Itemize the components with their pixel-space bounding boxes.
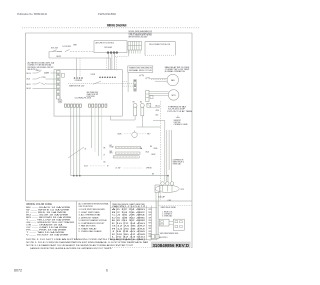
svg-text:CONN-PLUG: CONN-PLUG [75, 98, 93, 100]
svg-text:BK-19: BK-19 [27, 73, 31, 75]
defrost heater bulb TH2 [140, 103, 144, 107]
dotted cut line top [22, 27, 200, 29]
diagram frame left [25, 33, 27, 201]
fuse block F1 [147, 103, 151, 107]
svg-text:MTR: MTR [172, 95, 177, 97]
svg-text:CONN: CONN [91, 74, 95, 76]
svg-text:BU: BU [140, 101, 142, 103]
interlock switch SW1 [53, 50, 57, 52]
svg-text:HTR: HTR [110, 153, 113, 155]
terminal strip TB1 [128, 41, 142, 50]
svg-text:2. LIGHT SWITCHES: 2. LIGHT SWITCHES [79, 212, 101, 214]
svg-text:DEF: DEF [149, 215, 152, 217]
wire h 120 [110, 116, 112, 120]
svg-text:DEF: DEF [149, 217, 152, 219]
svg-text:INTL SW: INTL SW [51, 48, 58, 50]
strip drop wire [128, 50, 130, 56]
svg-text:LT SW: LT SW [41, 77, 46, 79]
svg-text:BEFORE SERVICING UNIT: BEFORE SERVICING UNIT [129, 36, 148, 38]
svg-text:DEF: DEF [149, 228, 152, 230]
connector strip J1 [57, 71, 61, 100]
chart bottom rule with ticks [110, 239, 157, 241]
svg-text:WIRING COLOR CODE: WIRING COLOR CODE [26, 203, 52, 206]
svg-text:E 8 20 32 488: E 8 20 32 488 [112, 220, 145, 222]
svg-text:SEE TIMER SEQ: SEE TIMER SEQ [87, 92, 99, 94]
svg-text:SEE NOTE 5: SEE NOTE 5 [159, 237, 168, 239]
console enclosure outline [54, 70, 122, 117]
door switch SW2 [65, 50, 70, 52]
svg-text:3. A/C THERMOSTAT: 3. A/C THERMOSTAT [79, 214, 102, 217]
dotted cut line bottom [110, 247, 192, 249]
connector block B2 push-to-start [145, 42, 175, 56]
timer wire stub [127, 72, 129, 92]
svg-text:RUN: RUN [149, 225, 152, 227]
evaporator fan motor M1 [167, 74, 178, 85]
relay inset left box [159, 219, 169, 226]
timer contacts [139, 75, 150, 79]
svg-text:BK: BK [152, 173, 154, 175]
svg-text:BK-05: BK-05 [27, 88, 31, 90]
svg-text:F 10 22 34 490: F 10 22 34 490 [112, 223, 145, 225]
svg-text:BK: BK [104, 148, 106, 150]
header pin row left [65, 104, 82, 107]
svg-text:BK/W: BK/W [152, 154, 156, 156]
svg-text:RUN: RUN [149, 209, 152, 211]
dashed wire to timer [115, 55, 128, 57]
svg-text:C 4 16 28 484: C 4 16 28 484 [112, 215, 145, 217]
svg-text:5. DEFROST HEATER SYSTEM: 5. DEFROST HEATER SYSTEM [79, 219, 107, 222]
svg-text:G: G [59, 100, 61, 103]
svg-text:BK/W: BK/W [57, 56, 62, 58]
table divider 1 [76, 201, 78, 240]
harness bundle jog [68, 147, 84, 158]
svg-text:A 0 12 24 480: A 0 12 24 480 [112, 208, 145, 211]
splice bus wire [71, 175, 168, 177]
svg-text:DANGER. RESPECTER LA MISE A LA: DANGER. RESPECTER LA MISE A LA TERRE DE … [30, 247, 113, 250]
svg-text:OR-3: OR-3 [156, 110, 160, 112]
relay inset panel [159, 205, 192, 207]
defrost limit switch [176, 117, 180, 119]
timer box T1 [128, 66, 153, 72]
svg-text:8. START RELAY: 8. START RELAY [79, 227, 98, 230]
svg-text:6: 6 [106, 268, 108, 272]
connector strip pin smudges [57, 74, 59, 95]
wire stub labels [104, 148, 106, 164]
svg-text:6. COMPRESSOR CIRCUIT: 6. COMPRESSOR CIRCUIT [79, 223, 106, 225]
svg-text:9. OVERLOAD GUARD: 9. OVERLOAD GUARD [79, 230, 103, 233]
svg-text:ANTI-FROST CONTROL: ANTI-FROST CONTROL [96, 41, 115, 44]
inset link wires [169, 221, 173, 223]
wire L1 top loop [49, 52, 111, 59]
svg-text:W-6: W-6 [156, 114, 159, 116]
svg-text:CUT-IN 25F: CUT-IN 25F [168, 109, 185, 111]
svg-text:RUN: RUN [149, 212, 152, 214]
svg-text:D 6 18 30 486: D 6 18 30 486 [112, 217, 145, 219]
svg-text:B 2 14 26 482: B 2 14 26 482 [112, 212, 145, 214]
svg-text:RUN: RUN [149, 220, 152, 222]
svg-text:DEFROST: DEFROST [174, 120, 181, 122]
terminal pins of B1 [107, 51, 109, 53]
relay inset right box [173, 219, 184, 230]
svg-text:W-BK: W-BK [154, 148, 158, 150]
safety thermostat TH4 [113, 156, 139, 158]
relay connector K1 [146, 91, 149, 102]
svg-text:4. DEFROST TIMER: 4. DEFROST TIMER [79, 217, 100, 219]
compressor shell [155, 185, 179, 192]
svg-text:DOOR SW: DOOR SW [63, 46, 72, 48]
wire h 127 [136, 126, 160, 128]
diagram frame right [191, 33, 193, 248]
connector dots left group [74, 77, 83, 79]
svg-text:BK-11: BK-11 [27, 84, 31, 86]
wires from B1 pins [108, 54, 110, 70]
svg-text:K 18 30 42 498: K 18 30 42 498 [112, 234, 145, 236]
bottom connector plugs [151, 235, 155, 239]
svg-text:BK: BK [150, 146, 152, 148]
svg-text:Publication No. 5995419142: Publication No. 5995419142 [17, 12, 47, 16]
wire capsule drops [134, 116, 136, 120]
svg-text:BU: BU [104, 162, 106, 164]
small connector rect [62, 73, 65, 77]
aux connector right of K1 [150, 96, 153, 99]
chart grid lines [110, 201, 157, 240]
pin stubs below TB1 [129, 50, 140, 54]
svg-text:7. FAN MOTORS: 7. FAN MOTORS [79, 225, 97, 228]
svg-text:H 14 26 38 494: H 14 26 38 494 [112, 228, 145, 230]
timer sequence chart [109, 201, 111, 240]
cabinet dashed boundary [160, 101, 162, 200]
svg-text:USE WITH 115V 60HZ ONLY: USE WITH 115V 60HZ ONLY [129, 33, 154, 35]
compressor feed wires [167, 130, 172, 182]
svg-text:RUN: RUN [149, 223, 152, 225]
svg-text:NOTE 2: SI LE CORDON D'ALIMENT: NOTE 2: SI LE CORDON D'ALIMENTATION EST … [26, 241, 149, 244]
svg-text:CONN BLK: CONN BLK [75, 80, 83, 82]
svg-text:RUN: RUN [149, 236, 152, 238]
svg-text:RUN: RUN [149, 234, 152, 236]
defrost thermostat bulb TH1 [133, 103, 137, 107]
svg-text:120V 60HZ: 120V 60HZ [104, 47, 112, 49]
svg-text:CPR BK: CPR BK [146, 168, 152, 170]
svg-text:RUN: RUN [149, 231, 152, 233]
diagram frame top [26, 32, 193, 34]
svg-text:NOTE 3: LE FABRICANT OU UN AGE: NOTE 3: LE FABRICANT OU UN AGENT DE SERV… [26, 244, 134, 247]
svg-text:TMR 1-2: TMR 1-2 [36, 70, 42, 72]
harness jog wire [93, 81, 101, 84]
svg-text:W-BK: W-BK [118, 134, 122, 136]
connector stack mid [134, 80, 136, 92]
svg-text:VIEW FROM WIRING SIDE: VIEW FROM WIRING SIDE [160, 233, 179, 235]
svg-text:DEF: DEF [110, 151, 113, 153]
wires from top bus down into console [77, 58, 111, 77]
terminal strip mid rail [128, 45, 142, 47]
svg-text:TIMER MOTOR 120V: TIMER MOTOR 120V [69, 86, 85, 88]
svg-text:L.T. SW: L.T. SW [115, 168, 121, 170]
header pin row right [89, 104, 107, 107]
chart status column [149, 209, 152, 238]
ground G [58, 99, 62, 103]
compressor CPR terminals [161, 182, 165, 186]
wires to bottom connector [158, 193, 160, 235]
splice junction dots [73, 175, 75, 177]
harness wires right group [92, 108, 102, 161]
svg-text:W-14: W-14 [84, 166, 88, 168]
svg-text:W-02: W-02 [27, 79, 31, 81]
anti-frost control box B1 [94, 41, 127, 53]
svg-text:L1 BK: L1 BK [167, 200, 171, 202]
start relay box [155, 185, 160, 193]
svg-text:WIRING DIAGRAM: WIRING DIAGRAM [107, 23, 127, 27]
svg-text:COMPRESSOR: COMPRESSOR [173, 160, 185, 162]
svg-text:BK: BK [133, 101, 135, 103]
fuse side labels [156, 105, 160, 116]
part number strip [151, 242, 191, 248]
svg-text:OFF POSITION: OFF POSITION [79, 206, 94, 208]
svg-text:NORMAL RUN CYCLE: NORMAL RUN CYCLE [129, 69, 153, 72]
svg-text:V —— VIOLET 18 GA WIRE: V —— VIOLET 18 GA WIRE [26, 234, 69, 237]
svg-text:6072: 6072 [14, 268, 22, 272]
wire from fan circuit down [153, 120, 165, 181]
svg-text:P&G CONNECTOR BLOCK: P&G CONNECTOR BLOCK [149, 44, 171, 46]
harness wires down to splice bus [71, 108, 80, 176]
svg-text:OPENS 140F: OPENS 140F [174, 124, 188, 126]
svg-text:FWX233LBS0: FWX233LBS0 [98, 12, 116, 16]
dotted drop wire [115, 57, 117, 71]
dashed link timer to fan motor [151, 79, 166, 81]
table top rule [26, 200, 193, 202]
svg-text:J 16 28 40 496: J 16 28 40 496 [112, 231, 145, 233]
condenser fan motor M2 [168, 90, 179, 101]
svg-text:310849856 REV:D: 310849856 REV:D [153, 243, 190, 248]
svg-text:NOTE 1: DO NOT USE AN EXTENSIO: NOTE 1: DO NOT USE AN EXTENSION CORD WIT… [26, 238, 146, 241]
svg-text:1. DOOR SWITCHES SHOWN: 1. DOOR SWITCHES SHOWN [79, 209, 106, 211]
long footnotes [26, 238, 149, 250]
svg-text:BK: BK [148, 133, 150, 135]
svg-text:W-23: W-23 [146, 152, 150, 154]
svg-text:4X: 4X [85, 149, 87, 151]
timer motor dashed feed [68, 83, 134, 85]
svg-text:G 12 24 36 492: G 12 24 36 492 [112, 226, 145, 228]
stack pin smudges [134, 80, 135, 91]
svg-text:LIMIT SW: LIMIT SW [174, 122, 181, 124]
